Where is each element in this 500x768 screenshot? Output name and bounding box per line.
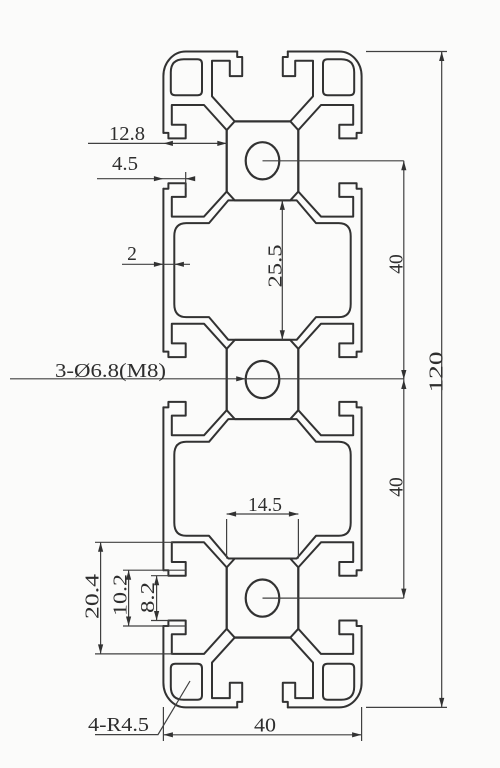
- svg-text:2: 2: [127, 244, 137, 265]
- svg-text:120: 120: [426, 352, 447, 393]
- T-slot left at hole 1: [163, 105, 226, 217]
- dimension 40 lower line: [401, 380, 406, 599]
- big cavity upper: [174, 200, 350, 339]
- T-slot left at hole 2: [163, 324, 226, 436]
- dimension 40 bottom extension lines: [163, 707, 361, 741]
- dimension 2 line: [122, 262, 190, 267]
- T-slot top: [212, 52, 313, 122]
- dimension 12.8 line: [88, 141, 227, 146]
- dimension 14.5 extension lines: [227, 519, 299, 559]
- center core 2: [227, 340, 299, 419]
- svg-text:4.5: 4.5: [112, 154, 138, 175]
- dimension 4.5 line: [97, 172, 195, 188]
- dimension 40 bottom line: [163, 732, 361, 737]
- T-slot left at hole 3: [163, 542, 226, 654]
- dimension 120 extension lines: [366, 52, 447, 708]
- dimension 14.5 line: [227, 511, 299, 516]
- T-slot right at hole 2: [298, 324, 361, 436]
- dimension 20.4 line: [98, 542, 103, 654]
- hole 1 center line: [263, 160, 404, 162]
- svg-text:40: 40: [386, 477, 407, 497]
- svg-text:4-R4.5: 4-R4.5: [88, 715, 149, 736]
- svg-text:8.2: 8.2: [138, 582, 159, 613]
- svg-text:25.5: 25.5: [266, 245, 287, 288]
- corner cavity bottom-right: [323, 664, 354, 700]
- svg-text:3-Ø6.8(M8): 3-Ø6.8(M8): [55, 361, 166, 382]
- corner cavity top-right: [323, 59, 354, 95]
- corner cavity top-left: [171, 59, 202, 95]
- svg-text:10.2: 10.2: [111, 574, 132, 616]
- svg-text:12.8: 12.8: [109, 124, 145, 145]
- center core 3: [227, 559, 299, 638]
- profile outer boundary: [163, 52, 361, 708]
- bore hole 1: [246, 142, 280, 179]
- dimension 40 upper line: [401, 161, 406, 380]
- hole 3 center line: [263, 597, 404, 599]
- svg-text:40: 40: [254, 716, 276, 737]
- corner cavity bottom-left: [171, 664, 202, 700]
- svg-text:14.5: 14.5: [248, 495, 282, 516]
- dimension 8.2 extension lines: [151, 576, 170, 621]
- dimension 8.2 line: [154, 576, 159, 621]
- leader 3-dia6.8(M8) line: [10, 376, 404, 381]
- big cavity lower: [174, 419, 350, 558]
- bore hole 2: [246, 361, 280, 398]
- dimension 20.4 extension lines: [95, 542, 173, 654]
- center core 1: [227, 121, 299, 200]
- dimension 10.2 extension lines: [123, 570, 186, 626]
- T-slot right at hole 1: [298, 105, 361, 217]
- T-slot right at hole 3: [298, 542, 361, 654]
- dimension 25.5 line: [280, 200, 285, 339]
- leader 4-R4.5 line: [95, 681, 190, 735]
- bore hole 3: [246, 580, 280, 617]
- svg-text:40: 40: [386, 254, 407, 274]
- svg-text:20.4: 20.4: [83, 574, 104, 619]
- T-slot bottom: [212, 637, 313, 707]
- dimension 120 line: [439, 52, 444, 708]
- dimension 10.2 line: [126, 570, 131, 626]
